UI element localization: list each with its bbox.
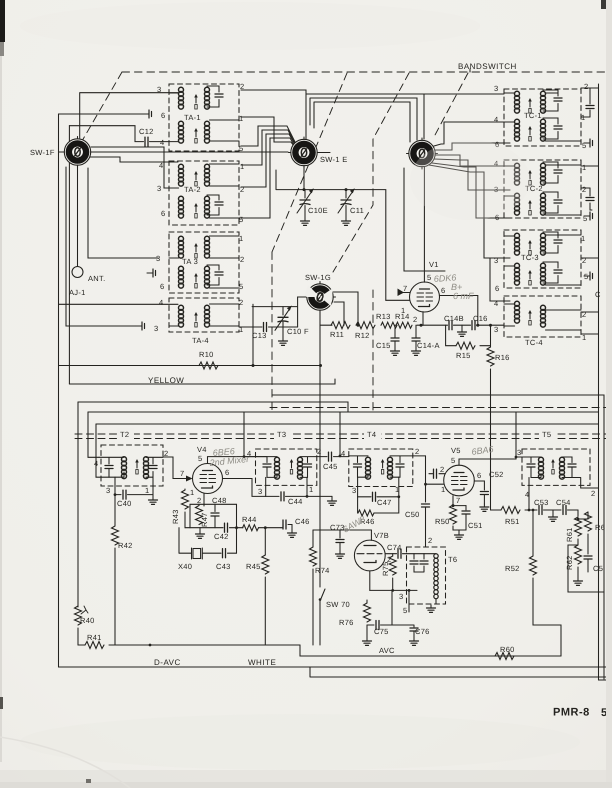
- R61 column: [577, 510, 579, 516]
- capacitor: [568, 464, 576, 467]
- wire: [78, 402, 348, 412]
- right edge bus: [598, 84, 600, 680]
- coil winding: [179, 121, 184, 143]
- wire: [533, 578, 561, 640]
- capacitor: [263, 464, 271, 467]
- svg-text:4: 4: [341, 449, 345, 458]
- svg-text:C46: C46: [295, 517, 310, 526]
- wire TA-2 pin1: [241, 130, 295, 165]
- svg-text:C45: C45: [323, 462, 338, 471]
- wire TA-1 pin1: [241, 117, 297, 150]
- wire: [345, 206, 347, 219]
- capacitor C55: [584, 556, 592, 559]
- svg-text:R10: R10: [199, 350, 214, 359]
- svg-text:R62: R62: [565, 555, 574, 570]
- tuning slug arrow: [551, 459, 555, 474]
- svg-text:1: 1: [582, 163, 586, 172]
- wire: [587, 534, 589, 552]
- wire: [390, 456, 413, 477]
- resistor R11: [356, 322, 375, 329]
- capacitor: [215, 202, 223, 205]
- ground: [458, 329, 467, 336]
- svg-text:TA-4: TA-4: [192, 336, 209, 345]
- wire: [453, 526, 466, 530]
- svg-text:C10E: C10E: [308, 206, 328, 215]
- C45 inline: [317, 456, 327, 458]
- resistor R43: [182, 490, 189, 509]
- svg-text:D-AVC: D-AVC: [154, 658, 181, 667]
- resistor R15: [456, 342, 475, 349]
- coil winding: [144, 457, 149, 479]
- resistor R45: [262, 555, 269, 574]
- svg-text:R44: R44: [242, 515, 257, 524]
- svg-text:5: 5: [239, 215, 243, 224]
- wire: [243, 412, 245, 457]
- wire: [366, 625, 368, 638]
- wire: [192, 548, 222, 559]
- svg-text:C53: C53: [534, 498, 549, 507]
- junction: [391, 589, 394, 592]
- R47 C48 box: [190, 504, 237, 527]
- wire: [560, 640, 562, 656]
- svg-text:V4: V4: [197, 445, 207, 454]
- C40: [115, 477, 121, 494]
- svg-text:SW-1G: SW-1G: [305, 273, 331, 282]
- junction dots: [489, 324, 492, 327]
- svg-text:3: 3: [494, 84, 498, 93]
- fan to TC-1 pin6: [435, 143, 510, 150]
- wire: [150, 141, 179, 143]
- R44: [237, 527, 244, 529]
- core adjust symbol: [584, 212, 593, 220]
- coil winding: [388, 457, 393, 479]
- V1 plate wire down: [440, 296, 478, 326]
- svg-text:3: 3: [399, 592, 403, 601]
- svg-text:C16: C16: [473, 314, 488, 323]
- trimmer C10F: [282, 307, 284, 315]
- variable capacitor C11: [345, 190, 347, 198]
- wire: [422, 312, 424, 325]
- V5 pin2 cap: [439, 473, 445, 475]
- C75: [367, 624, 374, 626]
- svg-text:TA 3: TA 3: [182, 257, 198, 266]
- svg-text:C52: C52: [489, 470, 504, 479]
- slug TA-1 pin6: [143, 110, 152, 118]
- svg-text:V1: V1: [429, 260, 439, 269]
- svg-text:4: 4: [525, 490, 529, 499]
- wire: [374, 497, 399, 513]
- wire: [77, 402, 79, 606]
- svg-text:R42: R42: [118, 541, 133, 550]
- wire: [465, 506, 467, 510]
- over-the-top wires to SW-4: [306, 94, 504, 139]
- svg-text:C42: C42: [214, 532, 229, 541]
- wire: [454, 324, 471, 326]
- ground: [455, 532, 464, 539]
- tube internals: [417, 289, 433, 307]
- coil winding: [539, 457, 544, 479]
- coil winding: [205, 305, 210, 327]
- wire: [504, 262, 581, 285]
- R74: [312, 530, 314, 547]
- svg-text:3: 3: [156, 254, 160, 263]
- coil winding: [541, 193, 546, 215]
- svg-text:C40: C40: [117, 499, 132, 508]
- svg-text:2: 2: [317, 447, 321, 456]
- svg-text:4: 4: [160, 138, 164, 147]
- wire: [99, 457, 124, 464]
- svg-text:WHITE: WHITE: [248, 658, 276, 667]
- C76: [392, 625, 414, 627]
- svg-text:V5: V5: [451, 446, 461, 455]
- D-AVC WHITE bus: [59, 666, 612, 668]
- coil winding: [515, 163, 520, 185]
- wire: [590, 188, 592, 210]
- svg-text:T4: T4: [367, 430, 376, 439]
- wire: [377, 496, 399, 498]
- wire: [429, 473, 433, 475]
- svg-text:3: 3: [494, 325, 498, 334]
- R75: [392, 554, 394, 556]
- capacitor C50: [422, 504, 430, 507]
- svg-text:R14: R14: [395, 312, 410, 321]
- svg-text:C48: C48: [212, 496, 227, 505]
- wire: [306, 477, 308, 496]
- svg-text:C43: C43: [216, 562, 231, 571]
- junction: [114, 493, 117, 496]
- svg-text:R60: R60: [500, 645, 515, 654]
- wire: [269, 326, 298, 328]
- svg-text:C5: C5: [593, 564, 603, 573]
- svg-text:1: 1: [190, 488, 194, 497]
- junction: [577, 518, 580, 521]
- wire: [169, 164, 239, 188]
- resistor R16: [487, 347, 494, 366]
- junction: [319, 364, 322, 367]
- ground: [410, 638, 419, 645]
- antenna jack AJ-1: [72, 267, 83, 278]
- junction: [515, 456, 518, 459]
- wire: [349, 456, 368, 463]
- svg-text:C44: C44: [288, 497, 303, 506]
- resistor R11: [381, 322, 397, 328]
- wire: [504, 118, 581, 141]
- wire: [480, 345, 491, 347]
- ground: [279, 338, 288, 345]
- C13 bus wire: [239, 326, 262, 328]
- wire: [504, 192, 581, 215]
- capacitor C15: [391, 338, 399, 341]
- wire: [75, 438, 612, 440]
- wire: [319, 609, 321, 645]
- lower feed lines: [272, 395, 604, 679]
- left box bottom wire: [59, 303, 179, 305]
- coil winding: [205, 121, 210, 143]
- wire: [169, 236, 239, 258]
- svg-text:6: 6: [441, 286, 445, 295]
- wire: [259, 527, 282, 529]
- svg-text:R47: R47: [200, 512, 209, 527]
- capacitor: [434, 469, 437, 478]
- svg-text:BANDSWITCH: BANDSWITCH: [458, 62, 517, 71]
- coil winding: [515, 91, 520, 113]
- svg-text:TC-4: TC-4: [525, 338, 543, 347]
- resistor R75: [389, 556, 396, 575]
- wire: [244, 457, 277, 463]
- left stub: [59, 151, 65, 153]
- ground: [412, 348, 421, 355]
- wire: [186, 476, 193, 482]
- fan to TC-1 pin4: [434, 122, 510, 146]
- wire: [96, 423, 599, 425]
- wire TA-1 pin2 up over: [241, 90, 306, 139]
- svg-text:5: 5: [583, 214, 587, 223]
- wire: [334, 302, 344, 325]
- wire: [270, 407, 612, 409]
- svg-text:R13: R13: [376, 312, 391, 321]
- core adjust symbol: [584, 272, 593, 280]
- bandswitch dashed linkage line: [82, 72, 612, 410]
- YELLOW line: [69, 379, 335, 384]
- svg-text:6: 6: [225, 468, 229, 477]
- svg-text:R6: R6: [595, 523, 605, 532]
- tuning slug arrow: [528, 126, 532, 141]
- coil winding: [541, 263, 546, 285]
- svg-text:1: 1: [239, 325, 243, 334]
- wire: [515, 412, 517, 457]
- coil winding: [541, 163, 546, 185]
- vertical x69.4 to yellow: [68, 126, 70, 384]
- svg-text:3: 3: [517, 448, 521, 457]
- svg-text:4: 4: [159, 298, 163, 307]
- C52 to ground: [474, 481, 484, 490]
- ground: [480, 504, 489, 511]
- svg-text:YELLOW: YELLOW: [148, 376, 184, 385]
- capacitor C53: [563, 506, 566, 515]
- resistor R11: [396, 322, 412, 328]
- wire to TA-1 pin6: [59, 113, 144, 115]
- right edge caps: [589, 88, 591, 117]
- junction: [319, 598, 322, 601]
- junction: [476, 324, 479, 327]
- svg-text:C11: C11: [350, 206, 364, 215]
- coil winding: [515, 193, 520, 215]
- wire: [214, 504, 216, 511]
- svg-text:C14-A: C14-A: [417, 341, 440, 350]
- TC-4 pin4 feed: [490, 258, 510, 301]
- tuning slug arrow: [290, 459, 294, 474]
- junction: [264, 526, 267, 529]
- capacitor C45: [329, 452, 332, 461]
- wire: [572, 478, 599, 489]
- svg-text:C: C: [595, 290, 601, 299]
- svg-text:TA-1: TA-1: [184, 113, 201, 122]
- wire from SW-1G bus: [319, 402, 321, 587]
- wire: [398, 289, 405, 297]
- svg-text:SW-1 E: SW-1 E: [320, 155, 348, 164]
- coil winding: [541, 233, 546, 255]
- svg-text:6: 6: [160, 282, 164, 291]
- svg-text:R43: R43: [171, 509, 180, 524]
- ground: [549, 514, 558, 521]
- wire: [423, 554, 425, 559]
- wire: [394, 341, 396, 348]
- capacitor C52: [480, 492, 488, 495]
- svg-text:5: 5: [403, 606, 407, 615]
- capacitor: [554, 126, 562, 129]
- wire: [403, 553, 407, 555]
- T4 drops and C47: [358, 477, 371, 497]
- wire: [207, 265, 239, 288]
- svg-text:5: 5: [198, 454, 202, 463]
- capacitor: [149, 466, 157, 469]
- svg-text:C76: C76: [415, 627, 430, 636]
- capacitor: [373, 492, 376, 501]
- capacitor: [211, 513, 219, 516]
- svg-text:V7B: V7B: [374, 531, 389, 540]
- R40 potentiometer: [77, 606, 79, 607]
- lower bus: [310, 667, 612, 677]
- capacitor C14-A: [415, 325, 417, 338]
- tuning slug arrow: [194, 128, 198, 143]
- svg-text:C75: C75: [374, 627, 389, 636]
- resistor R47: [196, 506, 203, 525]
- wire via C12 to TA-1 pin4: [69, 126, 143, 142]
- resistor R74: [310, 547, 317, 566]
- coil winding: [515, 263, 520, 285]
- svg-text:1: 1: [441, 485, 445, 494]
- svg-text:TC-1: TC-1: [524, 111, 542, 120]
- svg-text:3: 3: [352, 486, 356, 495]
- junction: [306, 495, 309, 498]
- tuning slug arrow: [528, 170, 532, 185]
- capacitor C53: [539, 506, 542, 515]
- wire: [214, 516, 216, 528]
- svg-text:7: 7: [180, 469, 184, 478]
- R76: [366, 600, 368, 603]
- wire TA-2 pin5: [241, 138, 296, 218]
- tuning slug arrow: [194, 243, 198, 258]
- T4 pin2 wire: [413, 455, 426, 457]
- wire: [370, 530, 372, 540]
- wire: [392, 578, 394, 590]
- V5 pin1 wire: [426, 483, 444, 485]
- wire: [434, 554, 438, 558]
- svg-text:2: 2: [239, 298, 243, 307]
- svg-text:1: 1: [395, 485, 399, 494]
- svg-text:6: 6: [161, 111, 165, 120]
- resistor R50: [450, 505, 457, 524]
- wire: [552, 510, 554, 514]
- svg-text:1: 1: [581, 113, 585, 122]
- junction: [243, 455, 246, 458]
- fan to TC-3 pin3: [429, 165, 510, 258]
- SW-1G right wires: [333, 292, 358, 325]
- wire: [314, 102, 410, 142]
- svg-text:R12: R12: [355, 331, 370, 340]
- C55: [587, 552, 589, 554]
- svg-text:T6: T6: [448, 555, 457, 564]
- wire: [334, 456, 349, 458]
- capacitor: [554, 200, 562, 203]
- svg-text:R51: R51: [505, 517, 520, 526]
- resistor R40: [75, 606, 82, 625]
- R43: [184, 489, 186, 490]
- R52: [532, 510, 534, 556]
- junction: [424, 483, 427, 486]
- wire to TA-3 pin3: [88, 168, 158, 258]
- svg-text:4: 4: [494, 299, 498, 308]
- R63 right: [578, 512, 588, 519]
- wire to TA-1 pin3: [80, 93, 178, 138]
- svg-text:SW-1F: SW-1F: [30, 148, 55, 157]
- junction: [397, 495, 400, 498]
- tuning slug arrow: [194, 312, 198, 327]
- wire: [461, 325, 463, 329]
- wire: [413, 631, 415, 638]
- svg-text:T5: T5: [542, 430, 551, 439]
- wire: [483, 495, 485, 504]
- svg-text:C10 F: C10 F: [287, 327, 309, 336]
- wire: [264, 577, 266, 645]
- switch SW-1G: [305, 282, 336, 313]
- R50 C51: [453, 496, 466, 506]
- wire: [409, 590, 436, 612]
- wire: [398, 477, 400, 497]
- wire: [369, 571, 371, 591]
- wire: [199, 528, 201, 531]
- C73: [313, 529, 371, 531]
- junction: [149, 644, 152, 647]
- wire: [109, 644, 300, 646]
- svg-text:ANT.: ANT.: [88, 274, 105, 283]
- svg-text:C12: C12: [139, 127, 154, 136]
- svg-text:6 mF: 6 mF: [453, 291, 474, 301]
- wire: [203, 493, 205, 506]
- coil winding: [515, 119, 520, 141]
- tuning slug arrow: [194, 203, 198, 218]
- coil winding: [179, 266, 184, 288]
- capacitor: [420, 561, 428, 564]
- wire: [96, 424, 109, 477]
- linkage diagonal to SW-1E: [272, 73, 347, 252]
- capacitor C73: [336, 540, 344, 543]
- capacitor: [554, 170, 562, 173]
- wire: [339, 543, 341, 551]
- svg-text:3: 3: [258, 487, 262, 496]
- svg-text:R74: R74: [315, 566, 330, 575]
- svg-text:2: 2: [582, 310, 586, 319]
- capacitor: [410, 561, 418, 564]
- V1 pin7 arrow: [386, 299, 410, 301]
- ground: [301, 218, 310, 225]
- coil winding: [205, 87, 210, 109]
- wire: [114, 548, 116, 645]
- switch SW-1F: [62, 137, 93, 168]
- tuning slug arrow: [194, 273, 198, 288]
- capacitor: [304, 464, 312, 467]
- wire: [544, 509, 562, 511]
- tube V7B: [354, 540, 385, 571]
- wire: [577, 567, 579, 578]
- svg-text:5: 5: [582, 141, 586, 150]
- capacitor C75: [376, 621, 379, 630]
- wire: [358, 468, 369, 478]
- tuning slug arrow: [528, 98, 532, 113]
- wire: [504, 162, 581, 183]
- right stub: [318, 152, 331, 154]
- resistor R10: [199, 362, 218, 369]
